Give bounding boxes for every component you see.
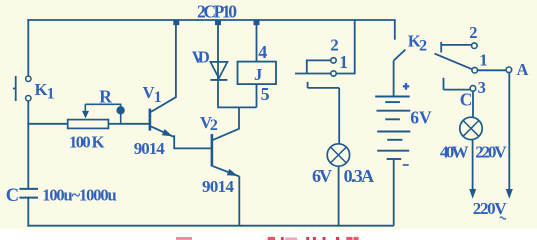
- caption fragment marks (red, cropped figure caption): [176, 237, 359, 240]
- junction dot (relay branch at top bus): [254, 20, 260, 25]
- diode VD triangle: [210, 62, 227, 78]
- relay contact point 1 (lower): [331, 71, 336, 76]
- svg-text:4: 4: [258, 42, 267, 62]
- svg-text:40W: 40W: [440, 142, 469, 161]
- svg-text:1: 1: [479, 50, 488, 69]
- svg-text:C: C: [6, 186, 19, 206]
- lamp EL1 (6V 0.3A): [327, 144, 349, 166]
- resistor R box (rheostat 100K): [68, 120, 109, 129]
- wire base row (left rail to V1 base through R): [28, 123, 148, 125]
- svg-text:6V: 6V: [312, 166, 332, 186]
- svg-text:100 K: 100 K: [69, 132, 105, 151]
- wire contact 1 to node A: [478, 69, 506, 71]
- arrowhead output left: [469, 189, 476, 199]
- svg-text:100u~1000u: 100u~1000u: [42, 185, 117, 204]
- label + (battery positive): [403, 83, 409, 90]
- svg-text:220V: 220V: [473, 199, 508, 218]
- svg-text:2: 2: [330, 35, 339, 54]
- wire left rail middle (K1 to capacitor C): [27, 101, 29, 188]
- wire left rail upper (top bus to K1): [27, 20, 29, 77]
- V1 emitter arrowhead: [162, 129, 173, 136]
- K2 contact point 1: [472, 67, 478, 73]
- node A terminal circle: [506, 67, 512, 73]
- wire contact 3 down to lamp EL2: [472, 91, 474, 118]
- svg-text:V2: V2: [200, 113, 218, 134]
- transistor V2 collector wire to relay bus: [213, 107, 239, 139]
- transistor V2 emitter wire: [213, 166, 239, 176]
- relay coil J box: [238, 62, 277, 85]
- wire top bus: [28, 19, 395, 21]
- svg-text:0.3A: 0.3A: [344, 166, 375, 186]
- switch K2 knife blade (battery pole): [394, 50, 406, 61]
- arrowhead output right: [506, 189, 513, 199]
- wire switch to battery positive: [393, 61, 395, 97]
- svg-text:1: 1: [339, 52, 348, 72]
- K2 contact point 3: [470, 86, 476, 92]
- svg-text:J: J: [254, 65, 262, 84]
- capacitor C: [19, 189, 38, 198]
- svg-text:3: 3: [478, 78, 486, 97]
- V2 emitter arrowhead: [227, 169, 238, 176]
- wire lamp EL1 to bottom bus: [338, 166, 340, 226]
- lamp EL2 (40W 220V): [460, 117, 482, 139]
- svg-text:2CP10: 2CP10: [197, 1, 237, 21]
- junction dot (diode branch at top bus): [215, 20, 221, 25]
- junction dot (V1 collector at top bus): [173, 20, 179, 25]
- K2 contact point 2: [472, 43, 478, 49]
- wire bracket to lamp EL1: [308, 82, 340, 144]
- relay contact common line: [295, 73, 331, 75]
- svg-text:5: 5: [261, 84, 270, 104]
- wire relay coil pin 5 to bus: [256, 84, 258, 107]
- diode VD cathode bar: [210, 79, 227, 81]
- wire top bus corner down to switch K2 pole: [394, 20, 396, 40]
- svg-text:2: 2: [469, 23, 477, 42]
- svg-text:9014: 9014: [202, 177, 235, 196]
- switch K2 selector blade: [435, 54, 472, 70]
- svg-text:A: A: [517, 60, 529, 79]
- svg-text:6V: 6V: [410, 108, 432, 128]
- wire diode branch (top bus through VD down to relay bus): [217, 21, 219, 107]
- K2 contact 3 stub: [444, 78, 471, 90]
- wire V2 emitter to bottom bus: [238, 176, 240, 226]
- wire relay lower bus (diode to coil to V2 collector): [217, 106, 256, 108]
- wire lamp EL2 to output terminal: [472, 139, 474, 190]
- wire relay contact feed from top bus: [337, 20, 355, 74]
- rheostat wiper arm of R: [85, 104, 120, 124]
- wire node A to output terminal: [508, 73, 510, 190]
- wire battery negative to bottom bus: [393, 159, 395, 226]
- transistor V1 emitter wire: [151, 126, 174, 136]
- wiper arrowhead of R: [82, 111, 89, 119]
- switch K1 (push button): [13, 76, 31, 101]
- transistor V1 bar: [149, 109, 152, 131]
- svg-text:220V: 220V: [475, 142, 507, 161]
- relay contact riser: [307, 60, 331, 73]
- svg-text:9014: 9014: [134, 139, 166, 158]
- wire relay coil branch from top bus: [256, 21, 258, 62]
- K2 contact 2 stub: [441, 42, 471, 53]
- wire V1 emitter to V2 base: [174, 135, 211, 148]
- battery GB 6V plates: [375, 97, 410, 160]
- relay contact point 2 (upper): [331, 58, 336, 63]
- wiper junction dot of R: [116, 106, 124, 114]
- svg-text:R: R: [99, 87, 112, 107]
- transistor V1 collector wire to top bus: [151, 21, 176, 112]
- transistor V2 bar: [211, 134, 214, 167]
- svg-text:VD: VD: [192, 47, 210, 66]
- wire left rail lower (capacitor C to bottom bus): [27, 198, 29, 226]
- label - (battery negative): [403, 164, 409, 166]
- wire bottom bus: [28, 225, 393, 227]
- svg-text:C: C: [460, 89, 473, 109]
